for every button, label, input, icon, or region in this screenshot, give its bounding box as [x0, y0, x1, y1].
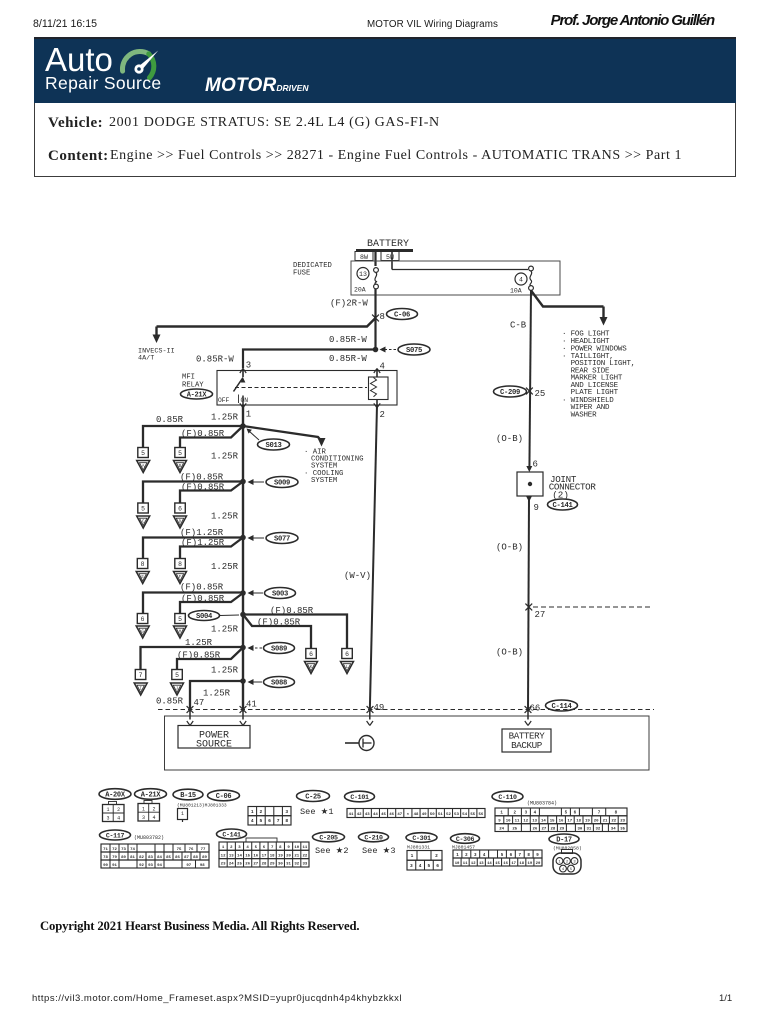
svg-text:0.85R: 0.85R	[156, 697, 184, 707]
wire to pin 47	[190, 681, 243, 712]
svg-text:85: 85	[166, 856, 171, 860]
node branch 6	[240, 645, 246, 651]
svg-text:1: 1	[181, 811, 184, 817]
svg-text:22: 22	[303, 854, 308, 858]
svg-text:(F)0.85R: (F)0.85R	[177, 651, 221, 661]
connector pinout D-17 round	[553, 850, 581, 875]
svg-text:17: 17	[262, 854, 267, 858]
fuse 13 20A	[354, 268, 378, 294]
svg-text:(MU802058): (MU802058)	[553, 846, 582, 852]
svg-text:55: 55	[470, 813, 475, 817]
svg-text:31: 31	[586, 827, 591, 831]
splice S013	[247, 429, 290, 451]
connector pinout C-110	[495, 808, 627, 832]
svg-text:OFF: OFF	[218, 397, 230, 404]
svg-text:5: 5	[175, 672, 179, 679]
svg-text:91: 91	[112, 864, 117, 868]
svg-text:49: 49	[422, 813, 427, 817]
svg-text:4: 4	[534, 812, 537, 816]
terminal box 6 (branch4 outer)	[137, 614, 148, 624]
svg-text:4: 4	[117, 815, 120, 821]
pin 2	[374, 403, 385, 420]
bottom dashed separator	[158, 709, 654, 711]
svg-text:76: 76	[189, 848, 194, 852]
svg-text:4A/T: 4A/T	[138, 355, 154, 363]
svg-text:A-21X: A-21X	[187, 392, 208, 400]
svg-text:9: 9	[536, 854, 539, 858]
pin mark 47	[187, 712, 193, 726]
pin 41	[240, 700, 257, 713]
svg-text:B: B	[179, 464, 182, 469]
battery B+	[356, 239, 413, 270]
dedicated fuse box	[351, 261, 560, 295]
svg-text:6: 6	[345, 651, 349, 658]
svg-text:(MU803784): (MU803784)	[527, 801, 557, 807]
svg-text:29: 29	[559, 827, 564, 831]
connector pinout A-20X	[103, 802, 125, 822]
svg-text:1: 1	[142, 806, 145, 812]
svg-text:49: 49	[374, 703, 385, 713]
pin mark 66	[525, 712, 531, 726]
svg-text:S077: S077	[274, 536, 290, 544]
connector label C-06	[208, 790, 240, 801]
svg-text:3: 3	[285, 809, 288, 815]
svg-text:(F)0.85R: (F)0.85R	[181, 429, 225, 439]
wire branch4 inner	[180, 593, 243, 614]
svg-text:88: 88	[193, 856, 198, 860]
node branch 4	[240, 590, 246, 596]
connector C-114 pin 66	[525, 700, 578, 714]
svg-text:75: 75	[177, 848, 182, 852]
svg-text:87: 87	[184, 856, 189, 860]
svg-text:16: 16	[253, 854, 258, 858]
splice S004	[189, 611, 246, 622]
svg-text:7: 7	[518, 854, 521, 858]
svg-text:28: 28	[550, 827, 555, 831]
svg-text:C-210: C-210	[364, 835, 383, 842]
connector pinout A-21X	[138, 801, 160, 822]
svg-text:1.25R: 1.25R	[211, 562, 239, 572]
connector pinout C-141	[219, 838, 309, 867]
svg-text:72: 72	[112, 848, 117, 852]
svg-text:ON: ON	[241, 397, 249, 404]
svg-text:C-06: C-06	[216, 793, 232, 801]
svg-text:15: 15	[550, 820, 555, 824]
svg-text:89: 89	[202, 856, 207, 860]
svg-text:I: I	[139, 687, 142, 692]
svg-text:29: 29	[270, 863, 275, 867]
wire branch to A/C systems	[243, 426, 326, 447]
svg-text:S075: S075	[406, 347, 422, 355]
connector pinout C-301	[407, 851, 442, 871]
svg-text:6: 6	[309, 651, 313, 658]
svg-text:5W: 5W	[386, 254, 394, 261]
svg-text:19: 19	[278, 854, 283, 858]
connector triangle B	[174, 461, 187, 473]
svg-text:C-114: C-114	[551, 703, 572, 711]
svg-text:47: 47	[397, 813, 402, 817]
svg-text:21: 21	[603, 820, 608, 824]
node A/C system loads	[304, 449, 364, 485]
dedicated fuse label	[293, 262, 332, 277]
svg-text:24: 24	[229, 863, 234, 867]
svg-text:77: 77	[201, 848, 206, 852]
svg-text:1.25R: 1.25R	[211, 512, 239, 522]
svg-text:FUSE: FUSE	[293, 269, 310, 277]
wire branch4 outer	[143, 593, 243, 614]
terminal box 8 (branch3 outer)	[137, 559, 148, 569]
svg-text:PLATE LIGHT: PLATE LIGHT	[562, 389, 619, 397]
connector label C-210	[359, 832, 389, 842]
svg-text:94: 94	[157, 864, 162, 868]
svg-text:46: 46	[389, 813, 394, 817]
terminal box 6 (branch5 lower)	[306, 649, 317, 659]
svg-text:5: 5	[141, 450, 145, 457]
svg-text:1: 1	[106, 807, 109, 813]
svg-text:4: 4	[519, 277, 523, 284]
connector label C-301	[406, 833, 437, 843]
svg-text:71: 71	[103, 848, 108, 852]
wire branch5 lower (F)0.85R	[243, 615, 311, 649]
node INVECS-II 4A/T	[138, 348, 175, 363]
svg-text:H: H	[179, 630, 182, 635]
svg-text:66: 66	[530, 704, 541, 714]
svg-text:C-101: C-101	[350, 794, 369, 801]
svg-text:1: 1	[251, 809, 254, 815]
svg-text:3: 3	[474, 854, 477, 858]
connector pinout C-06	[248, 807, 291, 826]
svg-text:(F)0.85R: (F)0.85R	[181, 594, 225, 604]
svg-text:(F)0.85R: (F)0.85R	[181, 483, 225, 493]
svg-text:C-25: C-25	[305, 794, 321, 802]
svg-text:42: 42	[357, 813, 362, 817]
svg-text:84: 84	[157, 856, 162, 860]
svg-text:1.25R: 1.25R	[211, 413, 239, 423]
svg-text:2: 2	[435, 853, 438, 859]
battery backup box	[502, 729, 551, 752]
svg-text:5: 5	[501, 854, 504, 858]
svg-text:23: 23	[620, 820, 625, 824]
svg-text:50: 50	[430, 813, 435, 817]
right wire C-B	[529, 291, 531, 471]
svg-text:27: 27	[253, 863, 258, 867]
svg-text:1: 1	[222, 846, 225, 850]
svg-text:25: 25	[512, 827, 517, 831]
pin 4	[374, 362, 385, 374]
svg-text:35: 35	[620, 827, 625, 831]
svg-text:8: 8	[285, 818, 288, 824]
svg-text:16: 16	[503, 862, 508, 866]
svg-text:9: 9	[287, 846, 290, 850]
fuse 4 10A	[510, 266, 533, 294]
connector pinout C-101	[347, 809, 485, 818]
svg-text:97: 97	[186, 864, 191, 868]
svg-text:8: 8	[615, 812, 618, 816]
vehicle/content box	[34, 103, 736, 177]
splice S075	[373, 344, 430, 355]
svg-text:48: 48	[414, 813, 419, 817]
svg-text:C: C	[142, 520, 145, 525]
svg-text:S009: S009	[274, 480, 290, 488]
svg-text:20: 20	[536, 862, 541, 866]
svg-text:27: 27	[541, 827, 546, 831]
svg-text:A: A	[142, 464, 145, 469]
svg-text:11: 11	[515, 820, 520, 824]
wire branch3 inner	[180, 538, 243, 559]
svg-text:13: 13	[479, 862, 484, 866]
connector label C-141 legend	[217, 829, 247, 839]
svg-text:C-B: C-B	[510, 321, 527, 331]
wire branch6 outer 1.25R	[141, 647, 244, 670]
svg-text:See ★1: See ★1	[300, 807, 334, 817]
wire fuse 13 down (2R-W)	[374, 289, 376, 350]
svg-text:18: 18	[519, 862, 524, 866]
svg-text:23: 23	[221, 863, 226, 867]
svg-text:16: 16	[559, 820, 564, 824]
svg-text:1.25R: 1.25R	[211, 625, 239, 635]
svg-text:90: 90	[103, 864, 108, 868]
svg-text:18: 18	[270, 854, 275, 858]
svg-text:C-141: C-141	[222, 832, 241, 839]
main ladder wire 1.25R	[242, 405, 244, 712]
pin 49	[367, 703, 385, 713]
svg-text:BACKUP: BACKUP	[511, 740, 543, 751]
connector triangle H	[174, 626, 187, 638]
terminal box 5 (branch1 inner)	[175, 448, 186, 458]
svg-text:1: 1	[500, 812, 503, 816]
connector triangle C	[137, 516, 150, 528]
svg-text:7: 7	[139, 672, 143, 679]
svg-text:0.85R-W: 0.85R-W	[329, 335, 367, 345]
svg-text:81: 81	[130, 856, 135, 860]
svg-text:7: 7	[277, 818, 280, 824]
connector pinout C-117	[101, 844, 209, 868]
svg-text:1.25R: 1.25R	[211, 452, 239, 462]
svg-text:(W-V): (W-V)	[344, 571, 371, 581]
connector label C-306	[451, 834, 480, 844]
connector triangle E	[136, 572, 149, 584]
svg-text:(O-B): (O-B)	[496, 543, 523, 553]
svg-text:C-205: C-205	[319, 835, 338, 842]
svg-text:30: 30	[577, 827, 582, 831]
svg-text:27: 27	[535, 610, 546, 620]
middle wire W-V to pin 49	[370, 405, 377, 712]
svg-text:7: 7	[598, 812, 601, 816]
connector C-209 pin 25	[494, 386, 546, 399]
svg-text:10A: 10A	[510, 288, 522, 295]
relay switch blade	[218, 369, 248, 406]
terminal box 6 (branch5 upper)	[342, 649, 353, 659]
svg-text:5: 5	[428, 863, 431, 869]
svg-text:G: G	[141, 630, 144, 635]
svg-text:17: 17	[567, 820, 572, 824]
svg-text:10: 10	[506, 820, 511, 824]
svg-text:8: 8	[279, 846, 282, 850]
svg-text:86: 86	[175, 856, 180, 860]
svg-text:33: 33	[303, 863, 308, 867]
svg-text:S003: S003	[272, 591, 288, 599]
wire branch1 outer 0.85R	[143, 426, 243, 448]
terminal box 5 (branch6 inner)	[172, 670, 183, 680]
svg-text:8: 8	[178, 561, 182, 568]
wire branch6 inner (F)0.85R	[177, 648, 243, 670]
svg-text:1: 1	[246, 410, 251, 420]
svg-text:10: 10	[294, 846, 299, 850]
connector triangle A	[137, 461, 150, 473]
svg-text:(F)2R-W: (F)2R-W	[330, 299, 368, 309]
svg-text:2: 2	[380, 410, 385, 420]
connector label A-21X	[135, 789, 167, 800]
svg-text:6: 6	[533, 460, 538, 470]
svg-text:25: 25	[237, 863, 242, 867]
svg-text:93: 93	[148, 864, 153, 868]
terminal box 7 (branch6 outer)	[135, 670, 146, 680]
svg-text:82: 82	[139, 856, 144, 860]
wire to relay pin 3	[243, 350, 376, 369]
svg-text:8: 8	[141, 561, 145, 568]
wire branch1 inner (F)0.85R	[180, 426, 243, 448]
svg-text:6: 6	[268, 818, 271, 824]
relay coil control dashed line	[235, 387, 367, 389]
svg-text:30: 30	[278, 863, 283, 867]
connector triangle K	[305, 662, 318, 674]
splice S009	[248, 477, 299, 488]
svg-text:1.25R: 1.25R	[211, 666, 239, 676]
connector label B-15	[173, 789, 203, 800]
svg-text:2: 2	[260, 809, 263, 815]
svg-text:41: 41	[349, 813, 354, 817]
ground symbol	[345, 736, 374, 751]
svg-text:18: 18	[576, 820, 581, 824]
connector label C-101	[345, 791, 375, 802]
svg-text:SOURCE: SOURCE	[196, 740, 232, 751]
pin mark 41	[240, 712, 246, 726]
svg-text:3: 3	[246, 361, 251, 371]
svg-text:83: 83	[148, 856, 153, 860]
svg-text:1.25R: 1.25R	[203, 689, 231, 699]
connector label C-25	[297, 791, 330, 802]
connector triangle J	[171, 683, 184, 695]
node branch 1	[240, 423, 246, 429]
svg-text:(MU801213)MJ801333: (MU801213)MJ801333	[177, 802, 227, 808]
svg-text:C-117: C-117	[106, 833, 125, 840]
wire branch to INVECS-II	[153, 318, 376, 343]
pin mark 49	[367, 712, 373, 726]
fusible link 8W	[355, 252, 373, 261]
connector C-06 pin 8	[372, 309, 417, 323]
svg-text:79: 79	[112, 856, 117, 860]
svg-text:6: 6	[141, 616, 145, 623]
connector pinout B-15	[178, 809, 188, 823]
svg-text:C-141: C-141	[552, 502, 573, 510]
pin 47	[187, 698, 205, 713]
svg-text:13: 13	[532, 820, 537, 824]
svg-text:45: 45	[381, 813, 386, 817]
svg-text:1: 1	[411, 853, 414, 859]
svg-text:34: 34	[611, 827, 616, 831]
svg-text:D: D	[179, 520, 182, 525]
svg-text:4: 4	[152, 815, 155, 821]
svg-text:E: E	[141, 575, 144, 580]
svg-text:9: 9	[498, 820, 501, 824]
terminal box 5 (branch1 outer)	[138, 448, 149, 458]
svg-text:(MU803782): (MU803782)	[134, 835, 164, 841]
svg-text:5: 5	[255, 846, 258, 850]
wire branch2 inner	[180, 482, 243, 504]
svg-text:6: 6	[510, 854, 513, 858]
svg-text:11: 11	[463, 862, 468, 866]
connector label C-117	[100, 830, 131, 840]
svg-text:C-301: C-301	[412, 835, 431, 842]
svg-text:6: 6	[263, 846, 266, 850]
svg-text:2: 2	[117, 807, 120, 813]
svg-text:9: 9	[534, 503, 539, 513]
system outline box	[165, 716, 650, 770]
svg-text:6: 6	[178, 506, 182, 513]
svg-text:B-15: B-15	[180, 792, 196, 800]
connector label A-20X	[99, 789, 131, 800]
connector triangle L	[341, 662, 354, 674]
svg-text:A-20X: A-20X	[105, 792, 126, 800]
svg-text:D-17: D-17	[556, 837, 572, 845]
svg-text:41: 41	[246, 700, 257, 710]
svg-text:5: 5	[141, 506, 145, 513]
svg-text:20: 20	[286, 854, 291, 858]
load list	[562, 331, 635, 420]
svg-text:31: 31	[286, 863, 291, 867]
svg-text:2: 2	[514, 812, 517, 816]
joint connector pin 9	[526, 496, 578, 513]
svg-text:20: 20	[594, 820, 599, 824]
svg-text:10: 10	[455, 862, 460, 866]
power source box	[178, 726, 250, 751]
svg-text:13: 13	[359, 271, 367, 278]
svg-text:51: 51	[438, 813, 443, 817]
svg-text:See ★2: See ★2	[315, 846, 349, 856]
svg-text:4: 4	[251, 818, 254, 824]
svg-text:(F)1.25R: (F)1.25R	[181, 538, 225, 548]
svg-text:S088: S088	[271, 680, 287, 688]
wire branch2 outer	[143, 482, 243, 504]
terminal box 5 (branch2 outer)	[138, 503, 149, 513]
svg-text:98: 98	[200, 864, 205, 868]
wire branch5 upper (F)0.85R	[243, 615, 347, 649]
pin 1	[240, 403, 251, 419]
svg-text:3: 3	[106, 815, 109, 821]
svg-text:RELAY: RELAY	[182, 381, 204, 389]
svg-text:8W: 8W	[360, 254, 368, 261]
MFI relay box A-21X	[182, 371, 397, 406]
svg-text:5: 5	[178, 450, 182, 457]
svg-text:BATTERY: BATTERY	[367, 239, 409, 250]
node branch 3	[240, 535, 246, 541]
svg-text:19: 19	[528, 862, 533, 866]
connector label C-110	[492, 791, 523, 802]
svg-text:0.85R-W: 0.85R-W	[329, 354, 367, 364]
joint connector pin 6	[526, 460, 538, 473]
svg-text:14: 14	[237, 854, 242, 858]
connector label C-205	[313, 832, 345, 842]
svg-text:(O-B): (O-B)	[496, 648, 523, 658]
svg-text:3: 3	[410, 863, 413, 869]
svg-text:17: 17	[511, 862, 516, 866]
terminal box 5 (branch4 inner)	[175, 614, 186, 624]
svg-text:S004: S004	[196, 613, 213, 621]
svg-text:28: 28	[262, 863, 267, 867]
svg-text:4: 4	[246, 846, 249, 850]
connector pinout C-306	[453, 850, 542, 866]
svg-text:3: 3	[142, 815, 145, 821]
